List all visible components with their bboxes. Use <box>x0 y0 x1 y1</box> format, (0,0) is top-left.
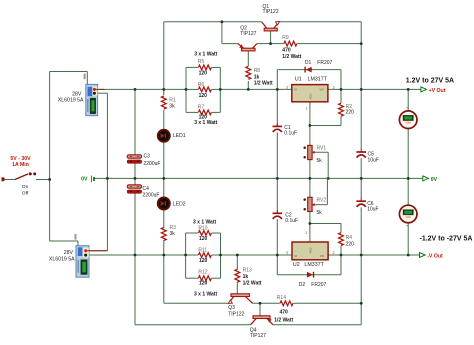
svg-text:VI: VI <box>294 254 297 258</box>
svg-text:FR207: FR207 <box>317 60 332 66</box>
svg-text:Volts: Volts <box>406 122 412 125</box>
svg-text:120: 120 <box>199 93 208 99</box>
svg-text:2200uF: 2200uF <box>143 193 160 199</box>
svg-text:VO: VO <box>320 254 325 258</box>
svg-text:1/2 Watt: 1/2 Watt <box>282 54 301 60</box>
svg-text:D2: D2 <box>299 282 306 288</box>
svg-text:Q3: Q3 <box>228 305 235 311</box>
svg-text:3k: 3k <box>169 104 175 110</box>
svg-text:R7: R7 <box>198 104 205 110</box>
svg-text:1k: 1k <box>254 74 260 80</box>
svg-text:120: 120 <box>199 71 208 77</box>
svg-text:1k: 1k <box>243 274 249 280</box>
svg-text:C3: C3 <box>144 154 151 160</box>
svg-text:1/2 Watt: 1/2 Watt <box>243 281 262 287</box>
svg-text:VO: VO <box>320 87 325 91</box>
svg-text:2200uF: 2200uF <box>144 161 161 167</box>
svg-text:3: 3 <box>286 85 288 89</box>
svg-text:RV2: RV2 <box>317 197 327 203</box>
svg-text:120: 120 <box>199 281 208 287</box>
svg-text:220: 220 <box>346 241 355 247</box>
svg-text:R14: R14 <box>277 295 286 301</box>
svg-text:VI: VI <box>294 87 297 91</box>
svg-text:R8: R8 <box>254 68 261 74</box>
svg-text:1A Min: 1A Min <box>12 162 29 168</box>
svg-text:120: 120 <box>199 258 208 264</box>
svg-text:120: 120 <box>199 236 208 242</box>
svg-text:0.1uF: 0.1uF <box>285 218 298 224</box>
svg-text:3k: 3k <box>170 231 176 237</box>
svg-text:TIP122: TIP122 <box>263 9 279 15</box>
svg-text:Volts: Volts <box>406 216 412 219</box>
svg-text:LM317T: LM317T <box>308 77 328 83</box>
svg-text:TIP127: TIP127 <box>240 31 256 37</box>
svg-text:R12: R12 <box>198 270 207 276</box>
svg-text:U1: U1 <box>295 77 302 83</box>
svg-text:R13: R13 <box>243 268 252 274</box>
svg-text:3 x 1 Watt: 3 x 1 Watt <box>193 219 216 225</box>
svg-text:-1.2V to -27V 5A: -1.2V to -27V 5A <box>420 235 473 242</box>
svg-text:+V Out: +V Out <box>429 88 446 94</box>
svg-text:1/2 Watt: 1/2 Watt <box>274 318 293 324</box>
svg-text:-V Out: -V Out <box>427 254 443 260</box>
svg-text:1/2 Watt: 1/2 Watt <box>254 81 273 87</box>
svg-text:28V: 28V <box>72 91 82 97</box>
svg-text:28V: 28V <box>64 250 74 256</box>
svg-text:10uF: 10uF <box>368 157 379 163</box>
svg-text:D1: D1 <box>305 60 312 66</box>
svg-text:LM337T: LM337T <box>304 262 324 268</box>
svg-text:2: 2 <box>333 251 335 255</box>
svg-text:3 x 1 Watt: 3 x 1 Watt <box>194 292 217 298</box>
svg-text:3 x 1 Watt: 3 x 1 Watt <box>194 120 217 126</box>
svg-text:LED2: LED2 <box>173 202 186 208</box>
svg-text:RV1: RV1 <box>317 145 327 151</box>
svg-text:470: 470 <box>282 48 291 54</box>
svg-text:470: 470 <box>280 309 289 315</box>
svg-text:LED1: LED1 <box>173 133 186 139</box>
svg-text:TIP127: TIP127 <box>250 333 266 339</box>
svg-text:R10: R10 <box>198 226 207 232</box>
svg-text:3 x 1 Watt: 3 x 1 Watt <box>194 51 217 57</box>
svg-text:5k: 5k <box>317 210 323 216</box>
svg-text:R9: R9 <box>282 35 289 41</box>
svg-text:XL6019 5A: XL6019 5A <box>58 97 84 103</box>
svg-text:On: On <box>22 184 29 190</box>
svg-text:1: 1 <box>305 231 307 235</box>
svg-text:R5: R5 <box>198 59 205 65</box>
svg-text:ADJ: ADJ <box>309 93 313 99</box>
svg-text:FR207: FR207 <box>311 282 326 288</box>
svg-text:C4: C4 <box>143 186 150 192</box>
svg-text:0.1uF: 0.1uF <box>284 131 297 137</box>
svg-text:R6: R6 <box>198 82 205 88</box>
svg-text:5V - 30V: 5V - 30V <box>10 156 31 162</box>
svg-text:10uF: 10uF <box>367 207 378 213</box>
svg-text:3: 3 <box>286 251 288 255</box>
svg-text:0V: 0V <box>81 177 88 183</box>
svg-text:2: 2 <box>333 85 335 89</box>
svg-text:XL6019 5A: XL6019 5A <box>49 256 75 262</box>
svg-text:Off: Off <box>22 190 29 196</box>
svg-text:U2: U2 <box>293 262 300 268</box>
svg-text:R4: R4 <box>346 235 353 241</box>
svg-text:1: 1 <box>306 107 308 111</box>
svg-text:R11: R11 <box>198 248 207 254</box>
svg-text:R3: R3 <box>170 225 177 231</box>
svg-text:TIP122: TIP122 <box>228 312 244 318</box>
svg-text:0V: 0V <box>431 177 438 183</box>
svg-text:5k: 5k <box>317 158 323 164</box>
svg-text:220: 220 <box>346 110 355 116</box>
svg-text:R1: R1 <box>169 98 176 104</box>
svg-text:1.2V to 27V 5A: 1.2V to 27V 5A <box>406 77 454 84</box>
svg-text:ADJ: ADJ <box>309 247 313 253</box>
